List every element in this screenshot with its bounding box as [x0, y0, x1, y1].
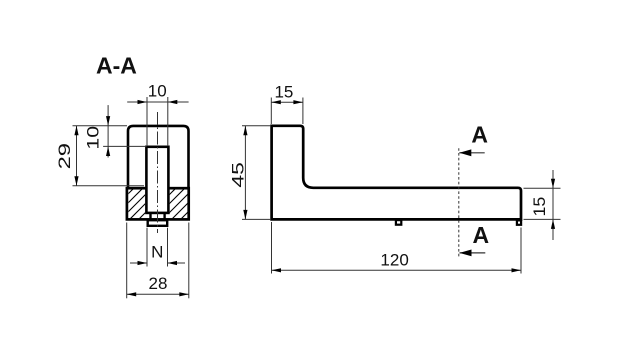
dim 15 right: dimension line with outside arrows — [552, 170, 554, 240]
right end tab under leg — [517, 220, 521, 224]
dim 45: dimension line inside arrows — [244, 126, 246, 220]
svg-text:15: 15 — [274, 82, 293, 101]
svg-text:29: 29 — [55, 143, 74, 169]
svg-text:28: 28 — [149, 274, 168, 293]
dim 15 right: extension lines — [524, 187, 561, 189]
dim 120: dimension line inside arrows — [272, 269, 522, 271]
dim 15 top: dimension line inside arrows pointing out — [271, 101, 303, 103]
svg-text:10: 10 — [84, 126, 103, 150]
slot — [146, 147, 168, 213]
hatch right — [142, 186, 214, 222]
dim 120: extension lines — [271, 222, 273, 274]
svg-text:A-A: A-A — [96, 53, 137, 79]
svg-text:10: 10 — [148, 82, 167, 101]
centerline — [157, 112, 159, 233]
svg-text:45: 45 — [229, 162, 248, 188]
svg-text:15: 15 — [529, 197, 549, 217]
svg-text:A: A — [472, 222, 489, 248]
dim 15 top: extension lines — [270, 98, 272, 125]
svg-text:120: 120 — [380, 250, 408, 269]
section arrow top — [459, 152, 484, 154]
dim 45: extension lines — [242, 125, 270, 127]
neck below slot — [149, 214, 151, 219]
dim 10 left: dimension line with outside arrows — [107, 105, 109, 157]
dim 10 left (vertical): extension lines — [73, 125, 128, 127]
section line A-A — [458, 148, 460, 257]
dim 28: dimension line with inside arrows — [127, 293, 189, 295]
center tab under leg — [396, 220, 401, 225]
dim N: dimension line with outside arrows — [130, 262, 147, 264]
svg-text:A: A — [471, 122, 488, 148]
dim 10 top: extension lines — [146, 97, 148, 146]
dim 10 top: dimension line — [127, 101, 188, 103]
dim 29: extension line bottom — [73, 185, 145, 187]
dim N: extension lines — [146, 228, 148, 267]
svg-text:N: N — [151, 242, 163, 261]
L profile outline — [272, 126, 521, 220]
base block — [127, 188, 189, 219]
hatch left — [100, 186, 172, 222]
dim 29: dimension line with inside arrows — [76, 126, 78, 186]
dim 28: extension lines — [126, 223, 128, 299]
bottom tab of nut — [148, 220, 168, 226]
section arrow bottom — [460, 252, 486, 254]
body outline — [128, 126, 189, 190]
